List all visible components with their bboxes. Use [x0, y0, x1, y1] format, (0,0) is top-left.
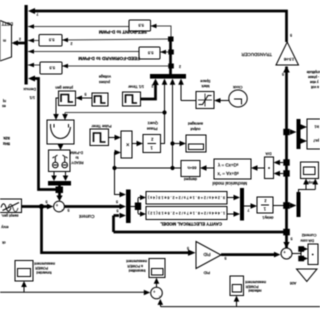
svg-text:TRANSDUCER: TRANSDUCER	[242, 52, 273, 57]
wire 5	[28, 64, 40, 66]
svg-text:damped: damped	[184, 177, 197, 181]
svg-text:D/A conv: D/A conv	[300, 239, 314, 243]
svg-text:5: 5	[290, 33, 292, 37]
svg-text:rq: rq	[3, 99, 6, 103]
svg-text:transmitted: transmitted	[129, 269, 146, 273]
svg-text:measurement: measurement	[245, 280, 266, 284]
svg-text:a volt: a volt	[311, 85, 319, 89]
bottom wire y292	[0, 291, 144, 293]
branch up into S3	[23, 287, 25, 293]
switch block C1	[47, 120, 74, 144]
wire SG to sum S1	[22, 205, 48, 208]
svg-text:1.4e4s/2+8.1e7s/2+2.6e13(12): 1.4e4s/2+8.1e7s/2+2.6e13(12)	[148, 211, 225, 215]
svg-text:5: 5	[117, 209, 119, 213]
feedback riser into product input2	[115, 153, 116, 169]
svg-text:Pulse Timer: Pulse Timer	[91, 124, 112, 128]
svg-text:z: z	[264, 199, 266, 204]
ADC triangle	[297, 269, 318, 282]
wire y168 (amplitude feedback)	[115, 167, 182, 169]
arrow into triangle base	[283, 66, 290, 73]
bottom wire y306.5 from right edge	[161, 306, 320, 308]
branch into D1	[170, 141, 174, 145]
svg-text:2: 2	[71, 42, 73, 46]
svg-text:5.5: 5.5	[49, 66, 55, 71]
sum S7	[281, 248, 292, 259]
edge box B5	[307, 119, 320, 149]
svg-text:Mechanical model: Mechanical model	[212, 181, 247, 186]
scope S2	[301, 162, 319, 179]
S4 up into display S4d	[156, 283, 158, 287]
svg-text:5.5: 5.5	[138, 23, 144, 28]
wire V1 (feedback to mux, thick)	[34, 79, 56, 190]
thick return wire y232 into M1 input3	[114, 231, 287, 234]
wire ramp to riser	[181, 100, 196, 102]
gain box B5a	[40, 62, 62, 74]
svg-text:5: 5	[291, 236, 293, 240]
cavity transfer fcn box 2	[146, 207, 227, 220]
bus junctions into T1	[283, 159, 289, 165]
svg-text:READY: READY	[71, 161, 84, 165]
riser to PWM mux bar (thick)	[169, 39, 172, 75]
svg-text:5: 5	[46, 199, 48, 203]
svg-text:1/1: 1/1	[29, 96, 35, 101]
svg-text:scope1: scope1	[304, 181, 315, 185]
demux bar DB	[240, 188, 244, 221]
sweep generator SG	[0, 199, 22, 213]
svg-text:POWER: POWER	[245, 285, 258, 289]
unit delay 1/z (2)	[257, 197, 273, 213]
node J5	[168, 64, 174, 69]
node J3	[168, 37, 174, 42]
wire 4 (feed-forward run)	[28, 51, 139, 53]
wire 3	[28, 40, 39, 42]
svg-text:D/A: D/A	[265, 151, 272, 155]
cavity outputs to demux bar	[227, 197, 234, 199]
node on bus to mux M3	[283, 129, 289, 135]
svg-text:averaged: averaged	[188, 122, 203, 126]
svg-text:5: 5	[187, 246, 189, 250]
delay out across bus to M2	[273, 205, 291, 207]
cavity transfer fcn box 1	[146, 192, 227, 205]
thick wire V2 + y253 run into PID	[42, 207, 190, 253]
svg-text:SET-POINT to D-PWM: SET-POINT to D-PWM	[99, 29, 147, 34]
product to unit delay	[132, 143, 137, 145]
svg-text:5.5: 5.5	[147, 51, 153, 56]
svg-text:5: 5	[116, 200, 118, 204]
node where y232 meets bus	[283, 229, 290, 236]
svg-text:to: to	[76, 155, 79, 159]
svg-text:5: 5	[85, 92, 87, 96]
mux bar M2	[297, 192, 301, 217]
svg-text:Mark: Mark	[201, 84, 209, 88]
svg-text:swept gen.: swept gen.	[1, 213, 18, 217]
pulse gen P1	[59, 91, 76, 106]
P3 timer box	[90, 129, 109, 146]
svg-text:5: 5	[282, 72, 284, 76]
svg-text:Phase: Phase	[147, 126, 158, 130]
svg-text:2: 2	[19, 37, 21, 41]
display block D1	[186, 135, 206, 152]
svg-text:es: es	[2, 104, 6, 108]
T1 to state-space	[257, 167, 265, 169]
svg-text:CAVITY ELECTRICAL MODEL: CAVITY ELECTRICAL MODEL	[160, 221, 222, 226]
svg-text:D-PWM: D-PWM	[70, 150, 83, 154]
svg-text:66+h: 66+h	[187, 166, 196, 171]
gain box B3a	[39, 35, 62, 47]
gain box 66+h	[181, 161, 200, 177]
svg-text:7: 7	[248, 208, 250, 212]
svg-text:+: +	[55, 202, 58, 207]
transducer gain triangle	[276, 42, 299, 65]
svg-text:5: 5	[68, 208, 70, 212]
bus arrow into sum S7	[283, 242, 289, 248]
scope S3 (forwarded power)	[15, 261, 33, 282]
branch up into scope S5	[236, 301, 238, 307]
svg-text:1: 1	[150, 146, 153, 151]
svg-text:y else: y else	[310, 80, 319, 84]
svg-text:1/1 Timer: 1/1 Timer	[127, 84, 144, 88]
svg-text:Demux: Demux	[23, 87, 36, 92]
scope S5 (reflected power)	[230, 276, 244, 296]
DAC box T2	[308, 244, 318, 265]
PWM ramp box (look-up)	[196, 92, 214, 109]
svg-text:5: 5	[225, 256, 227, 260]
svg-text:5Hz: 5Hz	[3, 141, 10, 146]
PID gain triangle	[196, 242, 221, 269]
svg-text:A06: A06	[290, 281, 296, 285]
svg-text:reflected: reflected	[248, 289, 261, 293]
pulse gen P2a	[92, 93, 108, 106]
svg-text:ps.f: ps.f	[314, 138, 319, 142]
horn (output transducer symbol, cut at edge)	[0, 21, 12, 62]
mux bar M3	[297, 119, 301, 149]
PID out to sum S7 (thick)	[221, 253, 274, 256]
svg-text:pulses: pulses	[99, 80, 110, 84]
M3 to edge box B5	[301, 126, 303, 128]
node J6 below B2	[56, 187, 64, 194]
riser from delay 1/z	[161, 113, 165, 144]
svg-text:PID: PID	[203, 271, 210, 275]
long line y112 (feedback to switch)	[65, 112, 165, 114]
unit delay 1/z	[143, 135, 161, 153]
state-space block (Mechanical model)	[214, 159, 251, 179]
gain box B2a	[129, 20, 151, 31]
wire P2b to B1 (thick)	[141, 85, 156, 100]
svg-text:ck: ck	[2, 241, 6, 245]
svg-text:32k: 32k	[3, 136, 10, 141]
dial block	[49, 150, 71, 172]
svg-text:Space: Space	[200, 79, 210, 83]
svg-text:Clock: Clock	[233, 85, 243, 89]
P3 to product	[109, 137, 116, 139]
mux M_A (output multiplexer bar)	[25, 5, 28, 85]
dial block to bar B2	[53, 172, 55, 177]
arrows up into B1	[152, 79, 159, 86]
svg-text:phase gen: phase gen	[55, 86, 73, 90]
svg-text:DETT: DETT	[1, 22, 13, 27]
svg-text:7: 7	[37, 12, 39, 16]
svg-text:In1: In1	[314, 124, 319, 128]
S7 out to DAC box T2	[292, 249, 304, 260]
svg-text:voltage: voltage	[99, 75, 111, 79]
svg-text:5.5: 5.5	[48, 38, 54, 43]
node J4	[168, 50, 174, 55]
svg-text:Current2: Current2	[302, 233, 317, 237]
mux bar M1	[126, 190, 131, 224]
product block X	[121, 131, 132, 158]
svg-text:2: 2	[152, 84, 154, 88]
wire 2 (set-point run)	[28, 26, 129, 28]
svg-text:POWER: POWER	[35, 266, 48, 270]
svg-text:2: 2	[179, 65, 181, 69]
mux bar B1 (PWM bus collector)	[150, 74, 186, 79]
svg-text:2.5-H6: 2.5-H6	[284, 57, 294, 61]
clock	[229, 90, 247, 107]
C1 to dial block	[60, 144, 62, 146]
main bus (thick vertical)	[285, 67, 288, 249]
svg-text:3.2e4s/2+8.1e7s/2+2.6e13(4s): 3.2e4s/2+8.1e7s/2+2.6e13(4s)	[148, 195, 225, 199]
gain box B4a	[139, 47, 160, 59]
wire clock to ramp	[220, 100, 229, 102]
svg-text:measurement: measurement	[126, 259, 147, 263]
svg-text:amplitude: amplitude	[307, 70, 320, 74]
sum S4	[151, 287, 163, 299]
node J7 (M1 out split)	[131, 206, 136, 208]
svg-text:Current: Current	[78, 214, 94, 219]
svg-text:ency: ency	[1, 225, 8, 229]
svg-text:measurement: measurement	[34, 262, 55, 266]
svg-text:m: m	[3, 39, 6, 43]
mux bar B2	[48, 181, 71, 186]
svg-text:FEED-FORWARD to D-PWM: FEED-FORWARD to D-PWM	[78, 56, 140, 61]
arrows into C1	[56, 98, 59, 115]
svg-text:x, = ∀x+Bˢ: x, = ∀x+Bˢ	[218, 171, 240, 176]
svg-text:a POWER: a POWER	[127, 264, 143, 268]
wires M2 up to scope S2	[299, 190, 316, 193]
timer box P2b	[123, 92, 141, 106]
wire P2a to P1	[81, 97, 92, 99]
D/A selector T1	[265, 157, 274, 179]
svg-text:Quarz: Quarz	[148, 121, 158, 125]
svg-text:PID: PID	[204, 252, 211, 257]
wire y168 into M1 input1	[115, 168, 121, 195]
svg-text:- phase: - phase	[308, 75, 319, 79]
state-space to gain box	[206, 167, 214, 169]
svg-text:λ = Cx+Dˢ: λ = Cx+Dˢ	[218, 162, 239, 167]
wire 1 top (thick, from transducer corner)	[31, 11, 287, 42]
wire mux to horn	[14, 42, 25, 45]
svg-text:×: ×	[126, 140, 130, 146]
svg-text:forwarded: forwarded	[36, 271, 51, 275]
svg-text:output: output	[191, 127, 201, 131]
svg-text:delay1: delay1	[262, 216, 273, 220]
wire S1 to mux M1	[64, 205, 120, 208]
sum S1	[54, 201, 65, 212]
display S4d (transmitted power)	[149, 259, 165, 278]
demux DB to unit delay 2	[244, 205, 251, 207]
